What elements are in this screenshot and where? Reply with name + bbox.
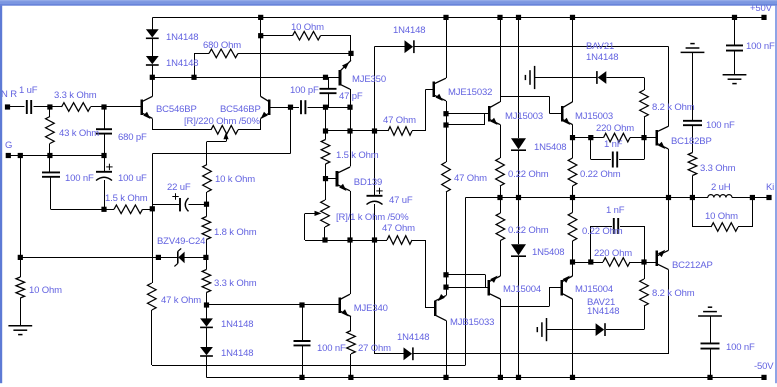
capacitor 22 uF electrolytic [179, 198, 181, 211]
wire [415, 46, 669, 48]
emitter arrow [436, 94, 443, 101]
wire [261, 35, 293, 37]
emitter arrow [658, 142, 665, 149]
wire [20, 156, 22, 278]
collector diag [657, 250, 669, 256]
collector diag [434, 78, 446, 84]
svg-text:1N4148: 1N4148 [166, 32, 198, 43]
svg-text:BZV49-C24: BZV49-C24 [157, 236, 205, 247]
wire [500, 186, 502, 198]
node [348, 51, 353, 56]
wire collector riser [260, 36, 262, 97]
node [204, 202, 209, 207]
wire [152, 365, 466, 367]
wire wiper [226, 139, 228, 142]
node [47, 104, 52, 109]
collector diag [489, 293, 501, 299]
pot wiper arrow [223, 132, 228, 139]
wire [692, 198, 694, 228]
resistor 8.2 k Ohm (lower) [640, 279, 649, 306]
svg-text:BC212AP: BC212AP [672, 260, 713, 271]
resistor 47 k Ohm (feedback) [148, 283, 157, 310]
emitter arrow [563, 118, 570, 125]
wire [500, 299, 502, 377]
svg-text:10 Ohm: 10 Ohm [29, 285, 62, 296]
wire [590, 226, 592, 262]
wire [374, 131, 376, 196]
emitter diag [340, 311, 351, 317]
transistor MJB15033 bar [434, 300, 437, 316]
svg-text:47 Ohm: 47 Ohm [383, 115, 416, 126]
wire [152, 65, 154, 96]
wire [414, 353, 669, 355]
wire [500, 125, 502, 158]
wire [446, 124, 484, 126]
transistor MJE340 bar [339, 298, 342, 314]
capacitor 100 nF (VAS base) [294, 340, 311, 342]
wire [446, 113, 489, 115]
node [323, 176, 328, 181]
svg-text:-50V: -50V [754, 361, 774, 372]
wire [305, 240, 387, 242]
wire [572, 186, 574, 198]
collector diag [657, 126, 669, 132]
svg-text:1.5 k Ohm: 1.5 k Ohm [336, 150, 379, 161]
wire [374, 47, 376, 131]
ground (inverted, Zobel top) [681, 51, 705, 53]
svg-text:47 k Ohm: 47 k Ohm [161, 295, 201, 306]
wire [518, 17, 520, 138]
node [203, 255, 208, 260]
wire [206, 327, 208, 347]
svg-text:1N4148: 1N4148 [586, 52, 618, 63]
wire G rail [8, 155, 104, 157]
node squares output rail [497, 195, 502, 200]
resistor 220 Ohm (upper) [604, 133, 631, 142]
wire [328, 77, 330, 89]
transistor BD139 bar [336, 171, 339, 187]
wire feedback top [152, 153, 290, 155]
emitter arrow [342, 62, 349, 69]
wire [152, 38, 154, 56]
wire [573, 137, 604, 139]
collector diag [435, 315, 446, 320]
capacitor 47 pF [320, 88, 337, 90]
wire [151, 310, 153, 365]
wire base [326, 178, 338, 180]
zener BZV49-C24 [178, 252, 184, 264]
collector arrow [658, 250, 665, 257]
resistor 680 Ohm [209, 49, 238, 58]
svg-text:1N4148: 1N4148 [587, 306, 619, 317]
wire [206, 356, 208, 377]
svg-text:BAV21: BAV21 [586, 41, 614, 52]
svg-text:1 uF: 1 uF [19, 85, 38, 96]
capacitor 1 nF (lower) [613, 218, 615, 234]
resistor 47 Ohm (driver emitters) [442, 162, 451, 192]
collector diag [340, 294, 350, 299]
transistor MJ15003 bar [561, 106, 564, 122]
capacitor 1 nF (upper) [612, 152, 614, 168]
transistor MJ15003 bar [488, 106, 491, 122]
emitter diag [337, 185, 350, 191]
collector diag [337, 167, 350, 173]
svg-text:27 Ohm: 27 Ohm [358, 343, 391, 354]
wire [500, 17, 502, 101]
resistor 27 Ohm [347, 331, 356, 354]
wire [20, 257, 177, 259]
node [101, 104, 106, 109]
resistor 0.22 Ohm [568, 158, 577, 186]
node squares bottom rail [299, 375, 304, 380]
transistor BC546BP right bar [268, 100, 271, 116]
resistor 0.22 Ohm [568, 213, 577, 242]
wire [152, 17, 154, 29]
wire [206, 240, 208, 258]
svg-text:BC546BP: BC546BP [220, 104, 261, 115]
svg-text:1N4148: 1N4148 [393, 25, 425, 36]
wire [668, 198, 670, 251]
wire VAS column [350, 89, 352, 166]
svg-text:47 Ohm: 47 Ohm [454, 173, 487, 184]
diode 1N4148 (top-left upper) [146, 29, 159, 37]
wire [630, 262, 657, 264]
ground (rotated left, lower) [546, 318, 548, 341]
wire [518, 257, 520, 378]
wire [207, 304, 340, 306]
emitter arrow [490, 276, 497, 283]
wire output rail [466, 197, 708, 199]
potentiometer [R]/1 k Ohm [321, 200, 330, 227]
wire [350, 191, 352, 240]
wire [446, 321, 448, 378]
wire [644, 306, 646, 330]
wire [8, 106, 25, 108]
transistor MJE350 bar [339, 70, 342, 86]
wire [732, 197, 769, 199]
emitter arrow [563, 276, 570, 283]
svg-text:3.3 Ohm: 3.3 Ohm [700, 163, 736, 174]
wire [238, 53, 351, 55]
svg-text:MJ15003: MJ15003 [575, 111, 613, 122]
wire [374, 240, 376, 354]
wire [194, 53, 196, 77]
wire base right [269, 107, 290, 109]
wire [326, 130, 389, 132]
wire [321, 35, 352, 37]
wire [518, 151, 520, 244]
emitter arrow [339, 184, 346, 191]
wire [668, 269, 670, 353]
wire [590, 138, 592, 160]
wire [606, 77, 644, 79]
node [150, 206, 155, 211]
svg-text:47 uF: 47 uF [389, 195, 413, 206]
wire collector load line [152, 77, 340, 79]
svg-text:MJB15033: MJB15033 [450, 317, 494, 328]
emitter diag [435, 296, 446, 301]
node [18, 255, 23, 260]
svg-text:1 nF: 1 nF [604, 139, 623, 150]
svg-text:1 nF: 1 nF [606, 205, 625, 216]
wire [350, 317, 352, 331]
wire [738, 226, 752, 228]
window frame right edge [775, 6, 777, 384]
diode 1N4148 (top-left lower) [146, 56, 159, 64]
wire [630, 137, 657, 139]
resistor 3.3 Ohm (Zobel) [688, 153, 697, 176]
svg-text:47 Ohm: 47 Ohm [382, 223, 415, 234]
svg-text:0.22 Ohm: 0.22 Ohm [582, 226, 623, 237]
node [204, 302, 209, 307]
resistor 43 k Ohm [46, 117, 55, 144]
svg-text:8.2 k Ohm: 8.2 k Ohm [652, 288, 695, 299]
resistor 1.8 k Ohm [202, 217, 211, 240]
node [323, 105, 328, 110]
svg-text:100 nF: 100 nF [746, 41, 775, 52]
node [443, 272, 448, 277]
node [516, 195, 521, 200]
svg-text:1N4148: 1N4148 [221, 348, 253, 359]
node squares on G rail [6, 153, 11, 158]
emitter diag [489, 276, 501, 282]
node [323, 128, 328, 133]
svg-text:MJ15004: MJ15004 [503, 284, 541, 295]
resistor 47 Ohm (driver feed) [388, 127, 412, 136]
transistor BC546BP left bar [141, 100, 144, 116]
svg-text:MJE340: MJE340 [354, 303, 388, 314]
node [258, 33, 263, 38]
wire [152, 204, 179, 206]
wire link [500, 96, 549, 98]
svg-text:BC182BP: BC182BP [671, 136, 712, 147]
emitter diag [489, 119, 500, 124]
wire [692, 52, 694, 120]
svg-text:220 Ohm: 220 Ohm [596, 123, 634, 134]
emitter arrow [341, 309, 348, 316]
svg-text:100 nF: 100 nF [726, 342, 755, 353]
wire [572, 198, 574, 213]
node [570, 259, 575, 264]
resistor 10 Ohm (VAS feed) [293, 31, 321, 40]
svg-text:8.2 k Ohm: 8.2 k Ohm [652, 102, 695, 113]
window frame title bar [0, 0, 777, 6]
svg-text:100 nF: 100 nF [317, 343, 346, 354]
wire [644, 262, 646, 279]
node [443, 111, 448, 116]
diode 1N4148 (bootstrap) [405, 40, 414, 53]
emitter arrow [490, 118, 497, 125]
node [641, 259, 646, 264]
emitter diag [657, 264, 669, 270]
diode 1N4148 (bias chain lower) [200, 347, 213, 355]
capacitor 47 uF electrolytic [367, 195, 383, 197]
wire [50, 106, 62, 108]
capacitor 100 nF (Zobel) [683, 120, 702, 122]
wire [668, 149, 670, 198]
transistor BC182BP bar [655, 130, 658, 146]
node [641, 135, 646, 140]
transistor BC212AP bar [655, 250, 658, 265]
svg-text:3.3 k Ohm: 3.3 k Ohm [54, 90, 97, 101]
capacitor 100 nF (rail bypass bottom) [701, 342, 720, 344]
resistor 10 Ohm (ground ref) [16, 277, 25, 298]
wire +50V top rail [152, 17, 764, 19]
node input terminal [5, 104, 10, 109]
node [101, 207, 106, 212]
svg-text:2 uH: 2 uH [711, 182, 731, 193]
emitter diag [142, 113, 153, 118]
ground (rotated left) [534, 66, 536, 89]
svg-text:100 nF: 100 nF [706, 120, 735, 131]
wire [350, 240, 352, 294]
svg-text:100 uF: 100 uF [118, 173, 147, 184]
transistor MJE15032 bar [432, 82, 435, 98]
resistor 8.2 k Ohm (upper) [640, 90, 649, 117]
resistor 1.5 k Ohm (feedback shunt) [114, 205, 143, 214]
collector diag [261, 96, 270, 101]
pot wiper arrow [315, 211, 322, 216]
wire [412, 130, 425, 132]
svg-text:BD139: BD139 [354, 177, 382, 188]
emitter arrow [143, 112, 150, 119]
collector diag [562, 293, 573, 299]
transistor MJ15004 bar [487, 280, 490, 296]
resistor 10 Ohm (output) [711, 223, 738, 232]
wire [104, 156, 106, 172]
wire [260, 17, 262, 35]
wire [375, 46, 405, 48]
emitter diag [562, 276, 573, 282]
diode 1N5408 (lower catch) [511, 244, 526, 255]
wire [206, 293, 208, 306]
wire [710, 349, 712, 378]
wire [143, 209, 153, 211]
wire [446, 274, 485, 276]
svg-text:N R: N R [1, 89, 17, 100]
svg-text:1N5408: 1N5408 [534, 142, 566, 153]
diode 1N5408 (upper catch) [511, 138, 526, 149]
emitter diag [657, 143, 669, 149]
capacitor 100 uF electrolytic [96, 171, 112, 173]
wire [206, 305, 208, 318]
capacitor 100 nF (rail bypass top) [726, 44, 743, 46]
wire wiper [305, 213, 315, 215]
wire [573, 262, 604, 264]
svg-text:220 Ohm: 220 Ohm [594, 248, 632, 259]
svg-text:0.22 Ohm: 0.22 Ohm [580, 169, 621, 180]
wire [185, 257, 206, 259]
wire [572, 125, 574, 158]
svg-text:10 Ohm: 10 Ohm [291, 22, 324, 33]
emitter arrow [438, 294, 445, 301]
wire [325, 179, 327, 200]
node [588, 135, 593, 140]
ground [723, 74, 747, 76]
wire [350, 354, 352, 378]
window frame left edge [0, 6, 2, 384]
diode BAV21/1N4148 (upper) [598, 71, 607, 84]
svg-text:0.22 Ohm: 0.22 Ohm [508, 169, 549, 180]
node [150, 75, 155, 80]
node [570, 135, 575, 140]
node [299, 302, 304, 307]
resistor 0.22 Ohm [496, 213, 505, 241]
wire [734, 17, 736, 45]
wire [446, 287, 489, 289]
svg-text:100 pF: 100 pF [290, 85, 319, 96]
emitter diag [434, 95, 446, 101]
wire [33, 106, 50, 108]
capacitor 1 uF [26, 100, 28, 114]
svg-text:0.22 Ohm: 0.22 Ohm [508, 225, 549, 236]
wire [325, 131, 327, 140]
resistor 3.3 k Ohm [62, 103, 91, 112]
collector diag [562, 102, 572, 108]
resistor 220 Ohm (lower) [603, 258, 630, 267]
node squares on +50V rail [258, 15, 263, 20]
wire [620, 226, 644, 228]
wire [302, 305, 304, 341]
svg-text:Ki: Ki [766, 182, 774, 193]
svg-text:43 k Ohm: 43 k Ohm [59, 128, 99, 139]
svg-text:MJ15003: MJ15003 [505, 111, 543, 122]
wire [692, 176, 694, 198]
node [191, 75, 196, 80]
svg-text:1.8 k Ohm: 1.8 k Ohm [214, 227, 257, 238]
wire [572, 299, 574, 377]
diode 1N4148 (lower bootstrap) [404, 347, 413, 360]
svg-text:680 Ohm: 680 Ohm [203, 40, 241, 51]
wire [446, 192, 448, 296]
resistor 0.22 Ohm [496, 158, 505, 186]
wire [206, 204, 208, 216]
wire [619, 159, 644, 161]
capacitor 100 nF (input ground) [42, 171, 60, 173]
potentiometer [R]/220 Ohm [211, 126, 238, 135]
resistor 3.3 k Ohm (bias) [202, 270, 211, 293]
svg-text:1.5 k Ohm: 1.5 k Ohm [105, 193, 148, 204]
collector diag [489, 102, 500, 108]
wire [49, 107, 51, 117]
wire [51, 209, 114, 211]
wire [238, 129, 261, 131]
wire [535, 77, 598, 79]
svg-text:1N5408: 1N5408 [532, 247, 564, 258]
wire [572, 17, 574, 101]
wire driver emitter bus [446, 101, 448, 162]
svg-text:10 Ohm: 10 Ohm [705, 211, 738, 222]
svg-text:100 nF: 100 nF [65, 173, 94, 184]
svg-text:BC546BP: BC546BP [156, 104, 197, 115]
capacitor 100 pF [300, 100, 302, 114]
wire [20, 298, 22, 326]
svg-text:G: G [5, 140, 12, 151]
wire -50V bottom rail [207, 377, 765, 379]
wire [412, 240, 425, 242]
wire feedback column [152, 153, 154, 283]
emitter diag [562, 119, 572, 124]
wire [291, 107, 299, 109]
wire [710, 316, 712, 343]
transistor MJ15004 bar [560, 280, 563, 296]
node [588, 259, 593, 264]
svg-text:[R]/220 Ohm /50%: [R]/220 Ohm /50% [184, 116, 260, 127]
resistor 1.5 k Ohm (VAS) [321, 140, 330, 165]
wire [206, 192, 208, 204]
collector diag [142, 96, 153, 101]
svg-text:[R]/1 k Ohm /50%: [R]/1 k Ohm /50% [336, 212, 409, 223]
